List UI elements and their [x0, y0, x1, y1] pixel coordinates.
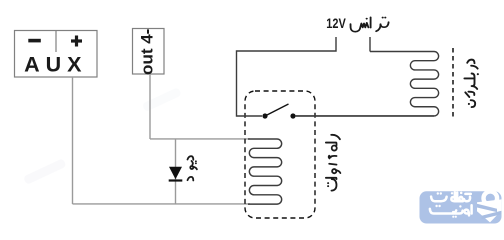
wire trans right terminal — [369, 37, 371, 52]
shield body — [477, 199, 501, 222]
relay label (rotated) — [326, 135, 340, 191]
switch S1 — [262, 104, 295, 119]
diode label (rotated) — [188, 156, 197, 180]
wire trans left terminal — [237, 37, 337, 116]
AUX terminal box — [15, 31, 98, 78]
wire switch to door opener — [295, 115, 434, 117]
wire diode branch — [175, 139, 177, 204]
minus sign — [28, 39, 41, 43]
watermark logo — [420, 191, 502, 223]
wire AUX down — [72, 77, 74, 204]
door frame dashed line — [452, 48, 454, 118]
watermark text line2 (amniat) — [430, 205, 472, 218]
wire out4 down — [149, 74, 151, 139]
door opener coil L2 — [295, 52, 439, 116]
shackle ring — [484, 191, 498, 205]
relay dashed box — [245, 91, 315, 218]
wire bottom rail — [73, 203, 251, 205]
plus sign — [71, 36, 82, 47]
door opener label (rotated) — [464, 60, 479, 107]
svg-text:12V: 12V — [326, 16, 346, 31]
watermark padlock-S icon — [477, 191, 501, 222]
ghost watermark smudge 1 — [23, 158, 67, 185]
svg-text:AUX: AUX — [24, 53, 87, 77]
trans word (hand glyphs) — [351, 17, 389, 32]
relay coil L1 — [248, 139, 282, 204]
diode D1 — [169, 167, 183, 182]
wire coil feed — [150, 138, 250, 140]
S band upper — [477, 204, 497, 212]
watermark text line1 (hefazat) — [431, 192, 471, 202]
out 4 box — [133, 29, 165, 75]
svg-text:out 4-: out 4- — [138, 29, 157, 75]
S band lower — [482, 211, 502, 219]
ghost watermark smudge 2 — [142, 87, 182, 112]
